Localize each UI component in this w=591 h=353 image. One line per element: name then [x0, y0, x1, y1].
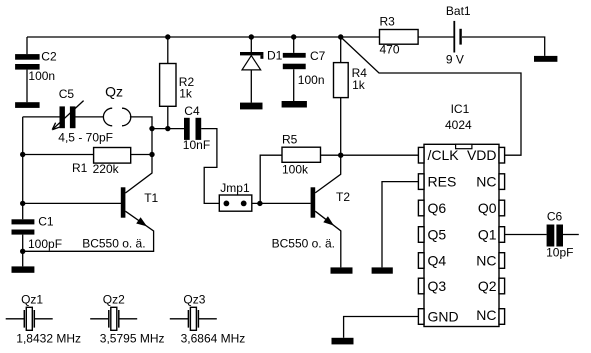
- pin Q0: [499, 200, 505, 216]
- wire C4 right zigzag to jumper: [201, 129, 219, 204]
- svg-text:Q3: Q3: [428, 278, 447, 294]
- trimmer capacitor C5: [52, 101, 83, 130]
- IC pin-1 notch: [456, 144, 472, 148]
- capacitor C2: [15, 37, 39, 102]
- crystal Qz3: [170, 307, 217, 330]
- junction D1 top: [249, 34, 254, 39]
- junction left rail / T1 emitter return: [20, 249, 25, 254]
- svg-text:R1: R1: [72, 161, 88, 175]
- svg-text:Q0: Q0: [478, 200, 497, 216]
- svg-text:Qz3: Qz3: [183, 292, 205, 306]
- svg-text:Q2: Q2: [478, 278, 497, 294]
- svg-text:100n: 100n: [298, 73, 325, 87]
- pin /CLK: [418, 147, 424, 163]
- ground (below C7): [282, 101, 307, 108]
- junction R2 bottom / C4 row: [165, 126, 170, 131]
- svg-text:BC550 o. ä.: BC550 o. ä.: [272, 236, 335, 250]
- svg-text:100n: 100n: [28, 69, 55, 83]
- pin NC (row 5): [499, 253, 505, 269]
- resistor R2: [160, 37, 176, 129]
- pin Q5: [418, 227, 424, 243]
- wire C5 to crystal socket: [76, 116, 104, 118]
- svg-text:4,5 - 70pF: 4,5 - 70pF: [58, 131, 113, 145]
- pin Q3: [418, 278, 424, 294]
- svg-text:NC: NC: [476, 307, 496, 323]
- crystal Qz2: [90, 307, 137, 330]
- capacitor C6: [547, 225, 563, 247]
- svg-text:470: 470: [380, 43, 400, 57]
- pin Q4: [418, 253, 424, 269]
- svg-text:Bat1: Bat1: [446, 4, 471, 18]
- svg-text:Q5: Q5: [428, 227, 447, 243]
- resistor R5: [260, 147, 341, 203]
- transistor T2: [311, 155, 341, 267]
- svg-text:BC550 o. ä.: BC550 o. ä.: [82, 237, 145, 251]
- svg-text:9 V: 9 V: [446, 53, 464, 67]
- junction R4 bottom / R5 / T2 collector / CLK: [338, 153, 343, 158]
- junction left rail / T1 base: [20, 201, 25, 206]
- wire top supply rail: [27, 36, 341, 38]
- jumper Jmp1: [219, 195, 252, 211]
- junction R3/R4/VDD node: [338, 34, 343, 39]
- svg-text:R3: R3: [380, 15, 396, 29]
- junction R1 right / T1 collector: [149, 152, 154, 157]
- pin RES: [418, 174, 424, 190]
- svg-text:3,5795 MHz: 3,5795 MHz: [100, 332, 165, 346]
- ground (below C1): [12, 266, 35, 272]
- wire Q1 to C6: [505, 234, 547, 236]
- wire GND pin to ground: [344, 317, 419, 338]
- svg-text:VDD: VDD: [467, 147, 497, 163]
- svg-text:1,8432 MHz: 1,8432 MHz: [16, 332, 81, 346]
- crystal Qz1: [6, 307, 53, 330]
- crystal socket Qz (two contacts): [103, 108, 130, 126]
- svg-text:RES: RES: [428, 174, 457, 190]
- transistor T1: [23, 155, 154, 252]
- svg-text:C5: C5: [59, 87, 75, 101]
- svg-text:10pF: 10pF: [546, 245, 573, 259]
- pin Q2: [499, 278, 505, 294]
- capacitor C7: [283, 37, 306, 101]
- svg-text:R5: R5: [282, 133, 298, 147]
- pin NC (row 7): [499, 309, 505, 325]
- ground (GND pin): [332, 338, 354, 345]
- svg-text:10nF: 10nF: [183, 138, 210, 152]
- resistor R3: [341, 30, 454, 45]
- svg-text:3,6864 MHz: 3,6864 MHz: [181, 332, 246, 346]
- diode D1: [240, 37, 263, 103]
- wire C5 left lead to left rail corner: [23, 116, 60, 118]
- svg-text:C2: C2: [41, 49, 57, 63]
- junction Qz drop / C4 row: [149, 126, 154, 131]
- svg-text:GND: GND: [428, 309, 459, 325]
- wire /CLK (R4/R5/T2 node to IC): [341, 154, 419, 156]
- svg-text:1k: 1k: [179, 86, 193, 100]
- pin VDD: [499, 147, 505, 163]
- svg-text:100pF: 100pF: [28, 237, 62, 251]
- IC U1 body (4024): [424, 144, 499, 326]
- wire RES to ground: [382, 182, 418, 268]
- svg-text:T2: T2: [336, 190, 350, 204]
- junction R2 top: [165, 34, 170, 39]
- svg-text:220k: 220k: [93, 162, 120, 176]
- svg-text:IC1: IC1: [451, 102, 470, 116]
- pin Q1: [499, 227, 505, 243]
- junction jumper right / R5 / T2 base: [257, 201, 262, 206]
- svg-text:NC: NC: [476, 253, 496, 269]
- ground (battery return): [534, 56, 557, 62]
- svg-text:C7: C7: [310, 49, 326, 63]
- ground (RES pin): [372, 267, 393, 273]
- svg-text:Q4: Q4: [428, 253, 447, 269]
- svg-text:4024: 4024: [445, 118, 472, 132]
- wire socket right to vertical drop: [130, 117, 152, 155]
- svg-text:/CLK: /CLK: [428, 147, 460, 163]
- battery Bat1: [454, 21, 544, 56]
- junction left rail / R1: [20, 152, 25, 157]
- resistor R1: [23, 148, 152, 164]
- svg-text:100k: 100k: [282, 162, 309, 176]
- svg-text:Qz1: Qz1: [21, 292, 43, 306]
- svg-text:Qz: Qz: [105, 84, 123, 100]
- resistor R4: [334, 37, 349, 155]
- svg-text:C6: C6: [547, 209, 563, 223]
- ground (T2 emitter): [331, 267, 353, 273]
- ground (below C2): [15, 102, 39, 108]
- svg-text:NC: NC: [476, 174, 496, 190]
- svg-text:Qz2: Qz2: [103, 292, 125, 306]
- svg-text:Jmp1: Jmp1: [220, 181, 250, 195]
- svg-text:C4: C4: [184, 104, 200, 118]
- capacitor C1: [12, 219, 35, 234]
- svg-text:C1: C1: [38, 215, 54, 229]
- ground (below D1): [240, 103, 263, 110]
- wire left rail vertical: [22, 117, 24, 267]
- pin Q6: [418, 200, 424, 216]
- svg-text:Q6: Q6: [428, 200, 447, 216]
- svg-text:D1: D1: [267, 48, 283, 62]
- wire C4 row (node to C4 left plate): [152, 128, 184, 130]
- junction C7 top: [291, 34, 296, 39]
- pin GND: [418, 309, 424, 325]
- wire jumper to T2 base: [252, 202, 311, 204]
- svg-text:T1: T1: [144, 191, 158, 205]
- wire T1 base row: [23, 202, 121, 204]
- wire C6 right stub: [563, 234, 579, 236]
- pin NC (row 2): [499, 174, 505, 190]
- wire VDD supply (diagonal from R3 node to IC VDD pin): [341, 37, 521, 155]
- svg-text:1k: 1k: [352, 78, 366, 92]
- capacitor C4: [184, 118, 201, 140]
- svg-text:Q1: Q1: [478, 227, 497, 243]
